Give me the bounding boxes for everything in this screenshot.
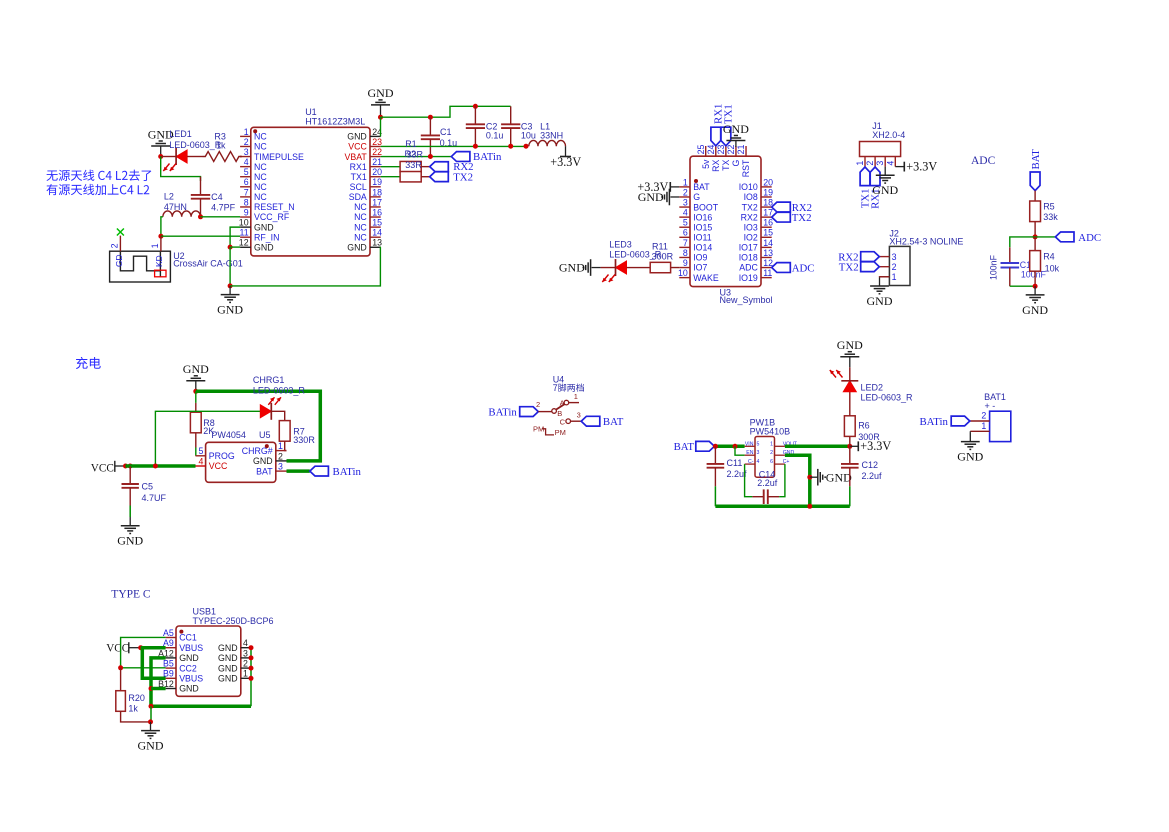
wire A12 B12 gnd vertical thick (151, 658, 251, 706)
svg-text:33NH: 33NH (540, 131, 563, 141)
svg-text:VIN: VIN (745, 441, 754, 447)
svg-text:GND: GND (254, 222, 274, 232)
svg-text:7: 7 (683, 238, 688, 248)
svg-text:IO9: IO9 (693, 253, 707, 263)
svg-text:20: 20 (763, 177, 773, 187)
svg-text:GND: GND (368, 86, 394, 100)
IC U5 PW4054 (196, 430, 287, 482)
svg-text:VCC_RF: VCC_RF (254, 212, 290, 222)
svg-text:1k: 1k (216, 140, 226, 150)
svg-text:EN: EN (746, 450, 753, 456)
svg-text:25: 25 (696, 145, 706, 155)
port TX1 below J1 (860, 167, 872, 208)
resistor R2 33R (400, 149, 430, 182)
port TX1 above U3 (721, 104, 735, 146)
svg-text:TX2: TX2 (839, 262, 859, 274)
resistor R7 330R (279, 421, 315, 451)
svg-text:VCC: VCC (348, 142, 367, 152)
svg-text:2.2uf: 2.2uf (757, 478, 778, 488)
wire J2 pin1 to gnd (880, 276, 890, 279)
ground GND above LED2 (837, 338, 863, 367)
svg-text:GND: GND (254, 242, 274, 252)
junction LED1 anode node (158, 154, 163, 159)
resistor R11 300R (650, 241, 679, 272)
wire EN branch (735, 446, 745, 455)
port BAT at boost (674, 441, 715, 453)
svg-text:BATin: BATin (919, 416, 948, 428)
svg-text:USB1: USB1 (193, 606, 217, 616)
wire U1 bottom gnd rail (230, 247, 381, 286)
svg-text:C12: C12 (862, 460, 879, 470)
svg-text:GND: GND (559, 261, 585, 275)
svg-text:5: 5 (198, 446, 203, 456)
svg-text:PM: PM (555, 428, 566, 437)
svg-text:BAT: BAT (256, 466, 273, 476)
svg-text:C1: C1 (440, 127, 452, 137)
svg-text:VCC: VCC (91, 462, 114, 474)
svg-text:NC: NC (354, 232, 367, 242)
svg-text:GND: GND (218, 653, 238, 663)
svg-text:CrossAir CA-G01: CrossAir CA-G01 (173, 259, 243, 269)
svg-text:6: 6 (683, 228, 688, 238)
svg-text:2: 2 (110, 243, 120, 248)
power +3.3V at U3 pin1 (637, 180, 679, 194)
svg-text:BOOT: BOOT (693, 202, 719, 212)
junction C2 bottom (473, 144, 478, 149)
note antenna text line1 (46, 170, 151, 181)
svg-text:TYPEC-250D-BCP6: TYPEC-250D-BCP6 (193, 616, 274, 626)
svg-text:NC: NC (254, 142, 267, 152)
junction VCC typec (138, 645, 143, 650)
svg-text:GND: GND (723, 122, 749, 136)
svg-text:IO8: IO8 (744, 192, 758, 202)
svg-text:ADC: ADC (1078, 232, 1101, 244)
junction VCC port (123, 464, 128, 469)
port TX2 at R2 (430, 171, 473, 183)
wire BAT pin3 to BATin (287, 469, 310, 473)
wire gnd to LED1 (161, 156, 176, 158)
junction pin12 gnd (228, 245, 233, 250)
power +3.3V at boost (850, 439, 892, 453)
capacitor C14 2.2uf loop (745, 464, 785, 504)
svg-text:5: 5 (757, 441, 760, 447)
svg-text:BAT: BAT (1030, 149, 1042, 170)
svg-text:18: 18 (763, 197, 773, 207)
svg-text:LED-0603_R: LED-0603_R (169, 140, 222, 150)
resistor R8 2K (190, 391, 214, 456)
wire pin10 gnd (230, 227, 240, 247)
svg-text:17: 17 (372, 197, 382, 207)
svg-text:VCC: VCC (209, 461, 228, 471)
capacitor C2 0.1u (466, 106, 504, 146)
svg-text:3: 3 (278, 462, 283, 472)
wire ADC node to port (1035, 236, 1055, 238)
switch contact A pin1 (560, 392, 578, 407)
svg-text:+ -: + - (985, 401, 996, 411)
svg-text:15: 15 (372, 218, 382, 228)
svg-text:C5: C5 (142, 482, 154, 492)
svg-text:GND: GND (347, 242, 367, 252)
svg-text:3: 3 (892, 252, 897, 262)
wire VCC rail thick (126, 464, 196, 468)
svg-text:A5: A5 (163, 628, 174, 638)
svg-text:LED3: LED3 (609, 240, 632, 250)
ground GND side at boost (810, 469, 852, 486)
svg-text:RESET_N: RESET_N (254, 202, 295, 212)
svg-text:GND: GND (179, 684, 199, 694)
svg-text:BATin: BATin (488, 407, 517, 419)
svg-text:VBUS: VBUS (179, 674, 203, 684)
svg-text:CHRG1: CHRG1 (253, 375, 285, 385)
wire TX1 to R2 (381, 176, 400, 178)
svg-text:LED2: LED2 (861, 382, 884, 392)
svg-text:5: 5 (683, 218, 688, 228)
ground GND below divider (1022, 286, 1048, 317)
capacitor C12 2.2uf (841, 446, 882, 506)
svg-text:14: 14 (372, 228, 382, 238)
svg-text:C: C (560, 417, 566, 426)
wire GND pin to rail (785, 455, 810, 506)
svg-text:L2: L2 (164, 192, 174, 202)
svg-text:3: 3 (757, 450, 760, 456)
wire BATin to switch B (538, 411, 552, 413)
svg-text:13: 13 (372, 238, 382, 248)
svg-text:PW4054: PW4054 (211, 430, 246, 440)
wire BAT to VIN (714, 445, 744, 449)
wire right gnd vertical (250, 648, 252, 707)
svg-text:R11: R11 (652, 241, 668, 251)
svg-text:IO10: IO10 (739, 182, 758, 192)
port ADC at U3 pin12 (772, 262, 815, 274)
svg-text:3: 3 (577, 411, 581, 420)
svg-text:9: 9 (683, 258, 688, 268)
svg-text:1: 1 (574, 392, 578, 401)
svg-text:4.7PF: 4.7PF (211, 202, 236, 212)
svg-text:RX2: RX2 (741, 212, 758, 222)
svg-text:KD: KD (154, 255, 164, 267)
svg-text:IO7: IO7 (693, 263, 707, 273)
svg-text:17: 17 (763, 208, 773, 218)
svg-text:23: 23 (372, 137, 382, 147)
LED CHRG1 LED-0603_R (253, 375, 306, 420)
svg-text:4.7UF: 4.7UF (142, 493, 167, 503)
svg-text:New_Symbol: New_Symbol (720, 295, 773, 305)
svg-text:GND: GND (347, 132, 367, 142)
svg-text:PW5410B: PW5410B (750, 426, 791, 436)
svg-text:GND: GND (138, 739, 164, 753)
svg-text:GND: GND (872, 183, 898, 197)
svg-text:B5: B5 (163, 659, 174, 669)
LED LED3 LED-0603_R (601, 240, 662, 282)
wire LED1 node down to C4 L2 node (161, 157, 201, 182)
junction usb gnd pin (249, 676, 254, 681)
svg-text:VBUS: VBUS (179, 643, 203, 653)
svg-text:21: 21 (372, 157, 382, 167)
svg-text:GND: GND (253, 456, 273, 466)
svg-text:IO15: IO15 (693, 222, 712, 232)
svg-text:4: 4 (243, 638, 248, 648)
port TX2 at J2 pin2 (839, 262, 879, 274)
svg-text:21: 21 (736, 145, 746, 155)
junction CC2 R20 (118, 665, 123, 670)
port BAT above R5 (1030, 149, 1042, 191)
svg-text:R5: R5 (1043, 201, 1055, 211)
svg-text:RX: RX (711, 159, 721, 171)
svg-text:10k: 10k (1045, 264, 1060, 274)
port BATin at charger (310, 466, 362, 478)
svg-text:GND: GND (218, 663, 238, 673)
svg-text:WAKE: WAKE (693, 273, 719, 283)
svg-text:GND: GND (837, 338, 863, 352)
svg-text:1: 1 (892, 272, 897, 282)
connector J2 XH2.54-3 NOLINE (879, 228, 963, 285)
svg-text:RF_IN: RF_IN (254, 232, 279, 242)
wire B12 stub (151, 687, 166, 691)
svg-text:IO3: IO3 (744, 222, 758, 232)
svg-text:+3.3V: +3.3V (906, 160, 937, 174)
wire ADC node to C13 (1010, 237, 1035, 247)
wire VBUS vertical thick (142, 648, 165, 679)
ground GND below typec (138, 722, 164, 753)
svg-text:4: 4 (244, 157, 249, 167)
switch PM pins (533, 424, 566, 436)
svg-text:R4: R4 (1043, 251, 1055, 261)
svg-text:VBAT: VBAT (344, 152, 367, 162)
capacitor C3 10u (501, 106, 536, 146)
ground GND at LED3 (559, 259, 601, 276)
svg-text:NC: NC (254, 172, 267, 182)
wire BAT1 pin1 to gnd (969, 431, 971, 433)
port BATin at switch (488, 407, 538, 419)
ground GND above charger (183, 362, 209, 391)
svg-text:IO11: IO11 (693, 233, 712, 243)
svg-text:GND: GND (217, 303, 243, 317)
svg-text:CC2: CC2 (179, 663, 197, 673)
wire R3 to pin3 (240, 156, 241, 158)
svg-text:BATin: BATin (333, 466, 362, 478)
wire R5 to ADC node (1034, 222, 1036, 237)
svg-text:ADC: ADC (739, 263, 758, 273)
svg-text:G: G (731, 159, 741, 166)
port VCC at typec (106, 642, 141, 654)
junction bottom rail (807, 504, 812, 509)
resistor R20 1k (116, 668, 151, 722)
svg-text:NC: NC (354, 212, 367, 222)
wire VCC to VBUS A9 thick (141, 646, 166, 650)
svg-text:HT1612Z3M3L: HT1612Z3M3L (305, 117, 365, 127)
no-connect X at antenna pin2 (117, 229, 124, 236)
IC USB1 TYPEC-250D-BCP6 (158, 606, 273, 696)
svg-text:C-: C- (748, 459, 754, 465)
junction usb gnd pin (249, 666, 254, 671)
switch contact C pin3 (560, 411, 581, 427)
svg-text:22: 22 (372, 147, 382, 157)
svg-text:8: 8 (683, 248, 688, 258)
svg-text:300R: 300R (652, 251, 674, 261)
svg-text:9: 9 (244, 207, 249, 217)
resistor R1 33R (400, 139, 430, 172)
wire BAT to R5 (1034, 191, 1036, 201)
wire LED3 to R11 (627, 267, 651, 269)
svg-text:C+: C+ (783, 459, 790, 465)
svg-text:22: 22 (726, 145, 736, 155)
svg-text:GND: GND (638, 190, 664, 204)
svg-text:NC: NC (254, 182, 267, 192)
inductor L1 33NH (529, 121, 566, 146)
svg-text:IO17: IO17 (739, 243, 758, 253)
svg-text:3: 3 (243, 648, 248, 658)
ground GND left of LED1 (148, 127, 174, 156)
svg-text:CC1: CC1 (179, 633, 197, 643)
port RX1 above U3 (711, 104, 725, 146)
svg-text:10: 10 (678, 268, 688, 278)
wire gnd down to rail (229, 247, 231, 286)
svg-text:U1: U1 (305, 107, 317, 117)
svg-text:2: 2 (770, 450, 773, 456)
IC U3 New_Symbol ESP32 module (678, 145, 773, 306)
junction EN branch (733, 444, 738, 449)
power +3.3V at L1 (550, 146, 581, 169)
wire LED1 to R3 (187, 156, 202, 158)
switch U4 7-pin two-position (553, 375, 584, 392)
svg-text:47HN: 47HN (164, 202, 187, 212)
svg-text:VCC: VCC (106, 642, 129, 654)
svg-text:G: G (693, 192, 700, 202)
svg-text:GND: GND (1022, 303, 1048, 317)
power +3.3V at J1 pin4 (895, 160, 937, 174)
svg-text:GND: GND (179, 653, 199, 663)
svg-text:R1: R1 (405, 139, 417, 149)
svg-text:4: 4 (683, 208, 688, 218)
junction VOUT node (847, 444, 852, 449)
svg-text:IO18: IO18 (739, 253, 758, 263)
svg-text:100nF: 100nF (989, 254, 999, 280)
connector J1 XH2.0-4 (855, 121, 905, 166)
svg-text:19: 19 (763, 187, 773, 197)
junction C11 top (713, 444, 718, 449)
capacitor C5 4.7UF (122, 466, 167, 517)
svg-text:NC: NC (354, 202, 367, 212)
svg-text:XH2.54-3 NOLINE: XH2.54-3 NOLINE (889, 237, 963, 247)
junction usb gnd pin (249, 645, 254, 650)
resistor R5 33k (1030, 201, 1059, 222)
svg-text:TX2: TX2 (742, 202, 758, 212)
svg-text:C11: C11 (727, 458, 743, 468)
svg-text:8: 8 (244, 197, 249, 207)
svg-text:12: 12 (763, 258, 773, 268)
wire switch C to BAT (571, 420, 582, 422)
svg-text:GND: GND (218, 674, 238, 684)
svg-text:TX: TX (721, 159, 731, 170)
port RX2 at J2 pin3 (838, 251, 879, 263)
resistor R4 10k (1030, 237, 1060, 286)
wire CHRG1 to R7 (272, 411, 285, 420)
battery connector BAT1 (970, 392, 1011, 441)
svg-text:19: 19 (372, 177, 382, 187)
svg-text:24: 24 (706, 145, 716, 155)
svg-text:RST: RST (741, 159, 751, 177)
wire antenna to RF_IN pin11 (161, 235, 240, 237)
port VCC left (91, 461, 126, 475)
svg-text:GND: GND (218, 643, 238, 653)
svg-text:3: 3 (683, 197, 688, 207)
svg-text:C4: C4 (211, 192, 223, 202)
svg-text:GND: GND (826, 470, 852, 484)
junction usb gnd pin (249, 655, 254, 660)
svg-text:2.2uf: 2.2uf (862, 471, 883, 481)
svg-text:14: 14 (763, 238, 773, 248)
ground GND at U3 pin2 (638, 189, 680, 206)
svg-text:GND: GND (957, 450, 983, 464)
wire node to VCC_RF pin9 (201, 216, 241, 218)
svg-text:7: 7 (244, 187, 249, 197)
svg-text:1: 1 (243, 669, 248, 679)
port ADC output (1055, 232, 1101, 244)
svg-text:4: 4 (198, 456, 203, 466)
ground GND at J1 pin3 (872, 167, 898, 198)
svg-text:10u: 10u (521, 131, 536, 141)
svg-text:IO16: IO16 (693, 212, 712, 222)
svg-text:2: 2 (892, 262, 897, 272)
junction LED branch (153, 464, 158, 469)
svg-text:5: 5 (244, 167, 249, 177)
svg-text:1: 1 (770, 441, 773, 447)
svg-text:GND: GND (867, 294, 893, 308)
wire VCC to LED branch (155, 411, 260, 466)
switch contact B (536, 400, 562, 418)
svg-text:1: 1 (683, 177, 688, 187)
ground GND below U1 (217, 286, 243, 317)
svg-text:2: 2 (244, 137, 249, 147)
svg-text:18: 18 (372, 187, 382, 197)
svg-text:6: 6 (244, 177, 249, 187)
svg-text:BATin: BATin (473, 151, 502, 163)
svg-text:1k: 1k (128, 704, 138, 714)
svg-text:10: 10 (239, 218, 249, 228)
wire VCC rail (381, 145, 526, 147)
svg-text:TYPE C: TYPE C (111, 589, 151, 601)
svg-text:GND: GND (117, 534, 143, 548)
svg-text:R2: R2 (405, 149, 417, 159)
junction gnd side (807, 475, 812, 480)
svg-text:RX1: RX1 (350, 162, 367, 172)
junction pin24 gnd (378, 115, 383, 120)
svg-text:LED-0603_R: LED-0603_R (253, 385, 306, 395)
wire pin12 gnd (230, 246, 240, 248)
wire RX1 to R1 (381, 166, 400, 168)
svg-text:2: 2 (981, 411, 986, 421)
wire switch A out (569, 402, 579, 404)
antenna U2 CrossAir CA-G01 (110, 236, 243, 282)
svg-text:+3.3V: +3.3V (550, 155, 581, 169)
svg-text:330R: 330R (293, 435, 315, 445)
port RX2 at R1 (430, 161, 474, 173)
svg-text:BAT: BAT (603, 416, 624, 428)
svg-text:R6: R6 (858, 421, 870, 431)
svg-text:6: 6 (770, 459, 773, 465)
svg-text:3: 3 (875, 161, 885, 166)
junction C1 bottom (428, 154, 433, 159)
IC U PW5410B (745, 437, 798, 478)
junction rail left (149, 704, 154, 709)
svg-text:GD: GD (114, 254, 124, 267)
LED LED2 LED-0603_R (830, 370, 913, 416)
svg-text:TX2: TX2 (792, 212, 812, 224)
svg-text:2: 2 (865, 161, 875, 166)
svg-text:IO2: IO2 (744, 233, 758, 243)
svg-text:LED-0603_R: LED-0603_R (861, 393, 914, 403)
svg-text:16: 16 (763, 218, 773, 228)
